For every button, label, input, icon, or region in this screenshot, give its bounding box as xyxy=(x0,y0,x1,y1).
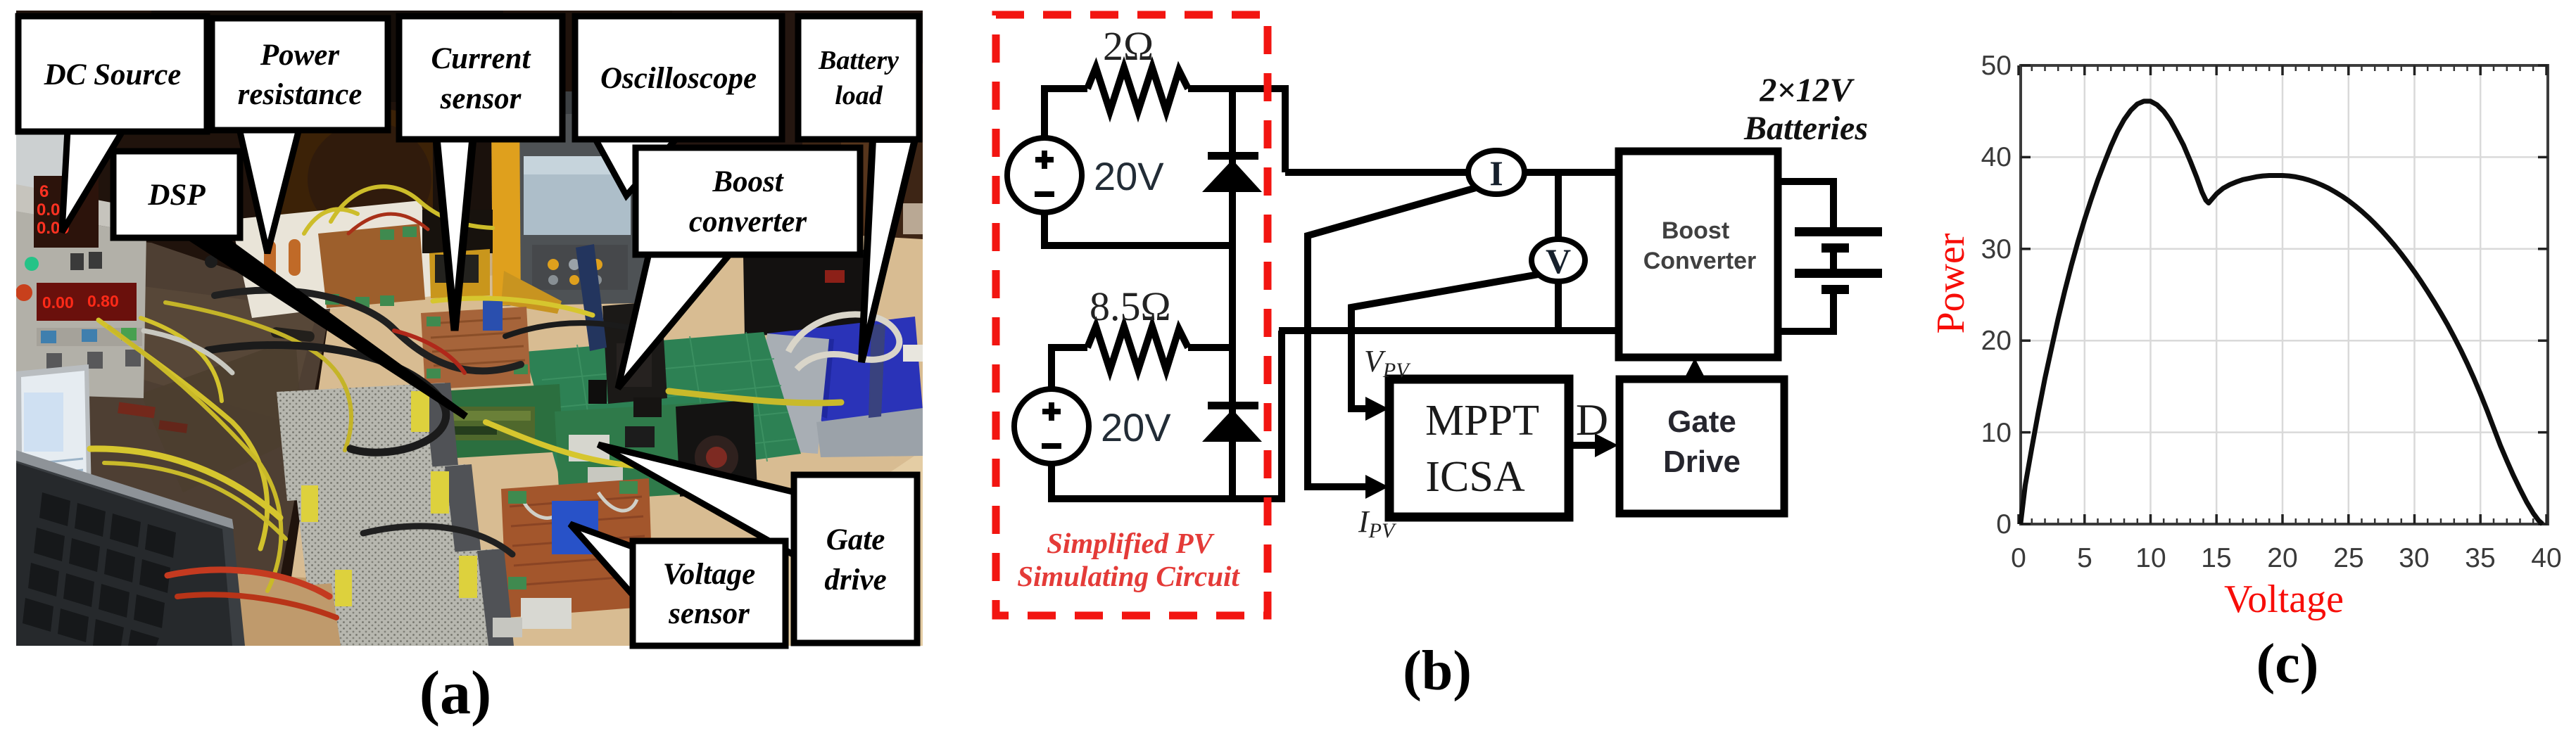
svg-text:(c): (c) xyxy=(2256,633,2319,695)
svg-text:(a): (a) xyxy=(419,659,492,727)
svg-text:DC Source: DC Source xyxy=(44,58,182,91)
svg-text:Batteries: Batteries xyxy=(1743,110,1868,147)
svg-text:8.5Ω: 8.5Ω xyxy=(1090,283,1171,329)
svg-text:Current: Current xyxy=(431,42,531,75)
svg-text:20: 20 xyxy=(2267,543,2297,573)
svg-text:25: 25 xyxy=(2333,543,2363,573)
svg-text:sensor: sensor xyxy=(440,82,522,115)
svg-text:Boost: Boost xyxy=(1662,217,1729,244)
svg-text:10: 10 xyxy=(2135,543,2166,573)
svg-text:Simplified PV: Simplified PV xyxy=(1047,527,1215,559)
svg-text:drive: drive xyxy=(824,563,886,597)
svg-text:I: I xyxy=(1489,153,1503,193)
svg-text:sensor: sensor xyxy=(668,597,750,630)
svg-text:load: load xyxy=(835,81,883,110)
svg-text:Drive: Drive xyxy=(1663,445,1741,479)
svg-text:50: 50 xyxy=(1981,51,2012,81)
svg-text:40: 40 xyxy=(1981,142,2012,172)
svg-text:10: 10 xyxy=(1981,418,2012,448)
svg-text:Voltage: Voltage xyxy=(663,558,755,591)
svg-text:Boost: Boost xyxy=(712,165,784,198)
svg-text:Battery: Battery xyxy=(818,46,899,75)
svg-text:Simulating Circuit: Simulating Circuit xyxy=(1017,560,1240,592)
svg-text:converter: converter xyxy=(689,205,807,238)
svg-text:20: 20 xyxy=(1981,326,2012,356)
svg-text:ICSA: ICSA xyxy=(1425,453,1524,501)
svg-text:35: 35 xyxy=(2465,543,2495,573)
svg-text:D: D xyxy=(1576,395,1608,445)
svg-text:Converter: Converter xyxy=(1643,248,1757,274)
svg-text:0.00: 0.00 xyxy=(42,293,74,312)
svg-text:DSP: DSP xyxy=(147,179,206,212)
svg-text:5: 5 xyxy=(2077,543,2092,573)
svg-text:0.80: 0.80 xyxy=(87,292,119,310)
svg-text:0: 0 xyxy=(1996,509,2012,540)
svg-text:0: 0 xyxy=(2011,543,2026,573)
svg-text:2×12V: 2×12V xyxy=(1759,72,1855,109)
svg-text:Power: Power xyxy=(1929,233,1973,333)
svg-text:15: 15 xyxy=(2201,543,2231,573)
svg-text:20V: 20V xyxy=(1101,405,1171,450)
svg-text:Power: Power xyxy=(260,39,341,72)
svg-text:Voltage: Voltage xyxy=(2224,578,2344,621)
svg-text:30: 30 xyxy=(2399,543,2429,573)
svg-text:MPPT: MPPT xyxy=(1425,397,1539,445)
svg-text:40: 40 xyxy=(2531,543,2561,573)
svg-text:resistance: resistance xyxy=(238,78,362,111)
svg-text:30: 30 xyxy=(1981,234,2012,264)
svg-text:2Ω: 2Ω xyxy=(1103,23,1154,69)
svg-text:VPV: VPV xyxy=(1364,344,1411,382)
svg-text:(b): (b) xyxy=(1403,640,1472,702)
svg-text:Gate: Gate xyxy=(1667,404,1736,439)
svg-text:6: 6 xyxy=(39,182,49,201)
svg-text:20V: 20V xyxy=(1094,154,1164,198)
svg-text:Oscilloscope: Oscilloscope xyxy=(600,62,757,95)
svg-text:V: V xyxy=(1546,241,1571,281)
svg-text:Gate: Gate xyxy=(826,523,885,556)
